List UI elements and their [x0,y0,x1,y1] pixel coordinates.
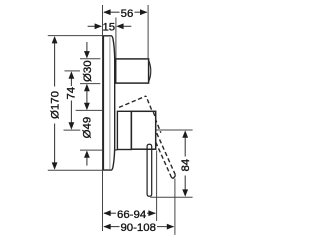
dim 90-108: right arrow [167,224,174,230]
dim 74: bottom extension tick [64,129,81,131]
wire between D30 and D49 arrows [86,91,88,104]
svg-text:Ø30: Ø30 [82,60,94,82]
dim 84: dimension line [184,137,186,157]
dim D49: lower tail [86,157,88,166]
svg-text:15: 15 [102,22,115,34]
dashed lever raised: bar front edge [154,126,176,175]
svg-text:Ø49: Ø49 [82,117,94,139]
dim D49: bottom arrow (outside, pointing up) [84,150,90,157]
dim 90-108: right extension line [174,179,176,235]
dim D49: bottom extension line [80,149,102,151]
svg-text:66-94: 66-94 [117,209,146,221]
sleeve [117,111,131,149]
dashed lever raised: hood top edge [119,96,146,107]
svg-text:Ø170: Ø170 [50,91,62,119]
plate inner edge line [109,37,111,169]
dim D170: dimension line [54,43,56,87]
dim 84: bottom extension line [150,196,192,198]
dim 15: right arrow (outside) [116,23,123,29]
dim 15: extension line right [115,18,117,59]
dim D30: bottom arrow (outside, pointing up) [84,84,90,91]
svg-text:84: 84 [180,159,192,172]
dashed lever raised: tip cap [171,175,175,178]
svg-text:90-108: 90-108 [120,222,155,234]
dim 84: top arrow [182,130,188,137]
dim 56: left arrow [103,9,110,15]
dim 66-94: dimension line [104,212,116,214]
dim D49: top arrow (outside, pointing down) [84,103,90,110]
dim D30: upper tail [86,42,88,52]
dim D170: top extension line [48,35,102,37]
dim 15: left arrow (outside) [95,23,102,29]
dim 84: top extension line [156,129,193,131]
svg-text:56: 56 [121,8,134,20]
escutcheon plate body [103,36,114,170]
dim 56: right arrow [140,9,147,15]
dim 66-94: right extension line [156,151,158,222]
dim 74: bottom arrow [69,122,75,129]
hub bottom edge over bar [145,148,155,150]
sleeve bottom edge to plate [115,149,118,151]
dim 15: right tail [123,25,132,27]
dim 66-94: left arrow [103,210,110,216]
lever hub [131,111,155,149]
svg-text:74: 74 [65,87,77,100]
dim D30: top extension line [80,58,100,60]
dim 56: dimension line [104,11,120,13]
dim 74: top extension tick [65,70,81,72]
dashed lever raised: bar back edge [149,128,171,177]
dim D49: top extension line [76,109,102,111]
dim D170: top arrow [52,36,58,43]
dim D30: bottom extension line [80,83,100,85]
dim 84: bottom arrow [182,189,188,196]
dim D170: bottom extension line [48,169,102,171]
dim 56: extension line right [147,5,149,59]
wire wall extension line [102,5,104,231]
dashed lever raised: hood front edge [146,96,161,133]
lever bar [147,144,152,196]
dim 90-108: dimension line [104,226,120,228]
dim 74: top arrow [69,71,75,78]
dim 66-94: right arrow [148,210,155,216]
dim 90-108: left arrow [103,224,110,230]
dashed lever raised: corner dash over hub edge [153,112,155,116]
shut-off knob [116,59,151,83]
dim 15: left tail [88,25,96,27]
dim D30: top arrow (outside, pointing down) [84,51,90,58]
dim D170: bottom arrow [52,162,58,169]
dim 74: dimension line [70,78,72,87]
